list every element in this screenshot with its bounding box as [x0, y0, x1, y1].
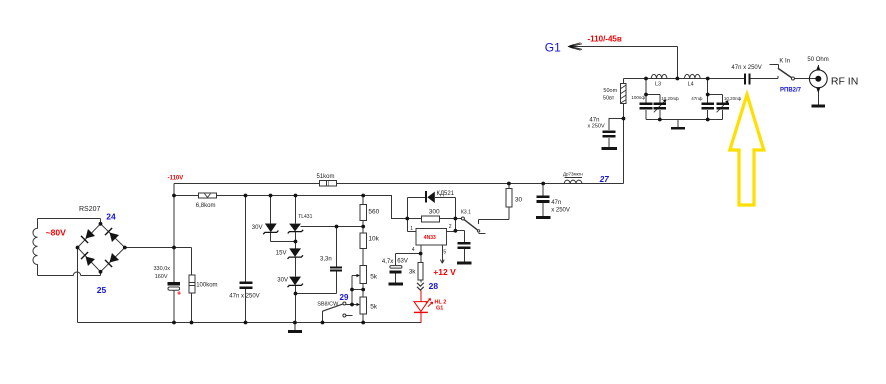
svg-text:47пф: 47пф — [691, 96, 702, 101]
svg-text:3,3n: 3,3n — [320, 257, 332, 263]
svg-text:4N33: 4N33 — [424, 235, 436, 241]
svg-text:50 Ohm: 50 Ohm — [807, 57, 828, 63]
svg-text:30V: 30V — [277, 278, 288, 284]
svg-text:1: 1 — [410, 226, 413, 232]
svg-text:4,7x: 4,7x — [382, 259, 393, 265]
svg-text:+12 V: +12 V — [433, 267, 456, 277]
svg-text:15V: 15V — [276, 251, 287, 257]
svg-text:Др73мкгн: Др73мкгн — [563, 172, 583, 177]
svg-text:TL431: TL431 — [298, 214, 312, 220]
svg-text:10,20пф: 10,20пф — [661, 96, 679, 101]
svg-text:5: 5 — [443, 250, 446, 256]
svg-text:24: 24 — [106, 212, 116, 222]
svg-text:30V: 30V — [252, 225, 263, 231]
svg-text:50вт: 50вт — [603, 95, 615, 101]
svg-text:330,0x: 330,0x — [154, 266, 171, 272]
svg-text:КД521: КД521 — [437, 191, 455, 197]
svg-text:2: 2 — [449, 224, 452, 230]
svg-text:10,20пф: 10,20пф — [724, 96, 742, 101]
svg-text:6,8kom: 6,8kom — [196, 203, 216, 209]
svg-text:27: 27 — [599, 175, 609, 184]
svg-text:50om: 50om — [603, 88, 617, 94]
svg-text:47n x 250V: 47n x 250V — [731, 65, 761, 71]
svg-text:~80V: ~80V — [46, 227, 66, 237]
svg-text:4: 4 — [412, 247, 415, 253]
svg-text:5k: 5k — [370, 304, 378, 311]
svg-text:300: 300 — [429, 208, 440, 215]
svg-text:560: 560 — [368, 209, 379, 216]
svg-text:L3: L3 — [655, 81, 661, 87]
svg-text:100пф: 100пф — [631, 95, 645, 100]
svg-text:100kom: 100kom — [196, 283, 217, 289]
svg-text:51kom: 51kom — [317, 174, 335, 180]
svg-text:30: 30 — [515, 197, 523, 204]
svg-text:x 250V: x 250V — [551, 208, 570, 214]
svg-text:160V: 160V — [155, 274, 168, 280]
svg-text:3k: 3k — [409, 269, 417, 276]
svg-text:25: 25 — [97, 285, 107, 295]
svg-text:10k: 10k — [368, 236, 379, 243]
svg-text:RF IN: RF IN — [831, 75, 858, 87]
svg-text:-110V: -110V — [168, 176, 184, 182]
svg-text:RS207: RS207 — [79, 206, 101, 213]
svg-text:L4: L4 — [688, 81, 694, 87]
svg-text:29: 29 — [340, 293, 349, 302]
svg-text:63V: 63V — [397, 259, 408, 265]
svg-text:47n x 250V: 47n x 250V — [229, 294, 259, 300]
svg-text:5k: 5k — [370, 273, 378, 280]
svg-text:SB8/CW: SB8/CW — [317, 302, 339, 308]
svg-text:47n: 47n — [551, 200, 561, 206]
svg-text:G1: G1 — [436, 306, 443, 312]
svg-text:-110/-45в: -110/-45в — [588, 35, 622, 44]
svg-text:x 250V: x 250V — [588, 123, 605, 129]
svg-text:РПВ2/7: РПВ2/7 — [780, 87, 802, 93]
svg-text:G1: G1 — [545, 41, 561, 55]
svg-text:К3.1: К3.1 — [461, 209, 471, 215]
svg-text:28: 28 — [429, 281, 439, 291]
svg-text:K In: K In — [779, 59, 790, 65]
svg-text:+: + — [177, 291, 181, 298]
